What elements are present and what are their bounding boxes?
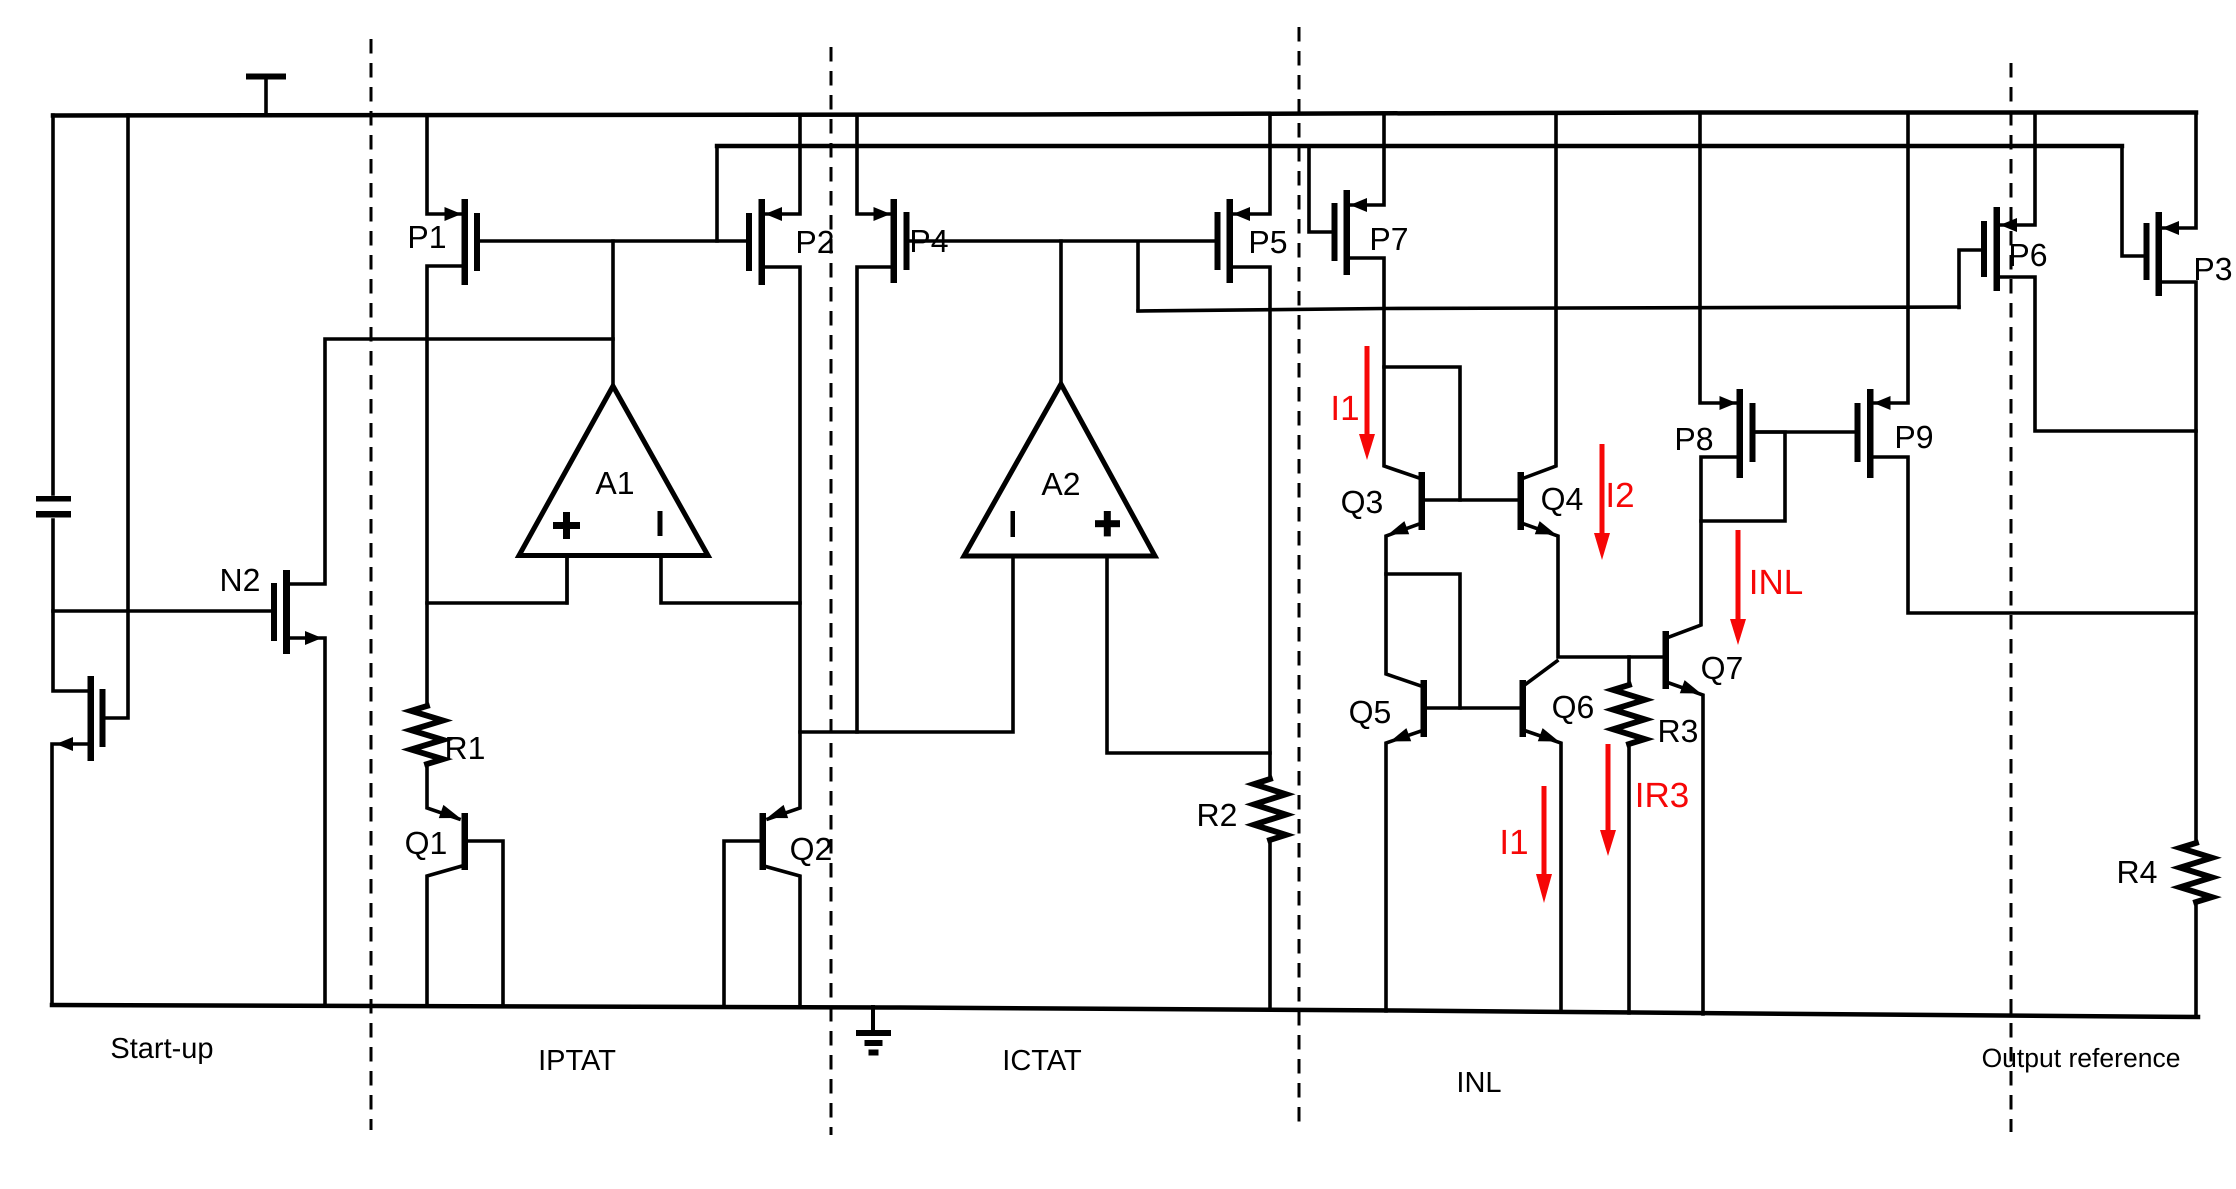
- svg-text:R2: R2: [1197, 797, 1238, 833]
- svg-text:ICTAT: ICTAT: [1002, 1045, 1082, 1077]
- svg-text:Output reference: Output reference: [1982, 1043, 2181, 1073]
- svg-text:P6: P6: [2008, 237, 2047, 273]
- svg-text:Q5: Q5: [1349, 694, 1392, 730]
- svg-text:INL: INL: [1456, 1067, 1501, 1099]
- svg-text:Q7: Q7: [1701, 650, 1744, 686]
- svg-text:Q1: Q1: [405, 825, 448, 861]
- svg-text:P9: P9: [1894, 419, 1933, 455]
- svg-text:Q4: Q4: [1541, 481, 1584, 517]
- svg-text:I1: I1: [1499, 823, 1528, 862]
- svg-text:R1: R1: [445, 730, 486, 766]
- svg-text:P2: P2: [795, 224, 834, 260]
- svg-text:Q3: Q3: [1341, 484, 1384, 520]
- svg-text:P5: P5: [1248, 224, 1287, 260]
- svg-text:Start-up: Start-up: [110, 1033, 213, 1065]
- svg-text:IPTAT: IPTAT: [538, 1045, 616, 1077]
- svg-text:N2: N2: [220, 562, 261, 598]
- svg-text:I1: I1: [1330, 389, 1359, 428]
- svg-text:Q6: Q6: [1552, 689, 1595, 725]
- svg-text:I2: I2: [1605, 476, 1634, 515]
- svg-text:INL: INL: [1749, 563, 1803, 602]
- svg-text:P7: P7: [1369, 221, 1408, 257]
- svg-text:P4: P4: [909, 223, 948, 259]
- svg-text:A1: A1: [595, 465, 634, 501]
- svg-text:P8: P8: [1674, 421, 1713, 457]
- svg-text:R4: R4: [2117, 854, 2158, 890]
- svg-text:IR3: IR3: [1635, 776, 1689, 815]
- svg-text:P1: P1: [407, 219, 446, 255]
- svg-text:P3: P3: [2193, 251, 2232, 287]
- svg-text:R3: R3: [1658, 713, 1699, 749]
- svg-text:Q2: Q2: [790, 831, 833, 867]
- svg-text:A2: A2: [1041, 466, 1080, 502]
